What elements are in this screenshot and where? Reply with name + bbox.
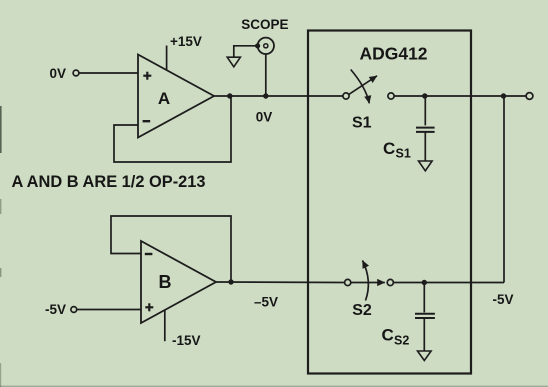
svg-text:C: C [383,139,395,158]
svg-text:S2: S2 [394,334,409,348]
svg-text:-5V: -5V [492,292,513,307]
svg-text:-5V: -5V [45,302,66,317]
svg-text:S1: S1 [396,147,411,161]
svg-text:S2: S2 [352,302,372,319]
svg-text:0V: 0V [256,110,273,125]
svg-text:S1: S1 [352,115,372,132]
svg-text:SCOPE: SCOPE [241,17,288,32]
svg-text:A AND B ARE 1/2 OP-213: A AND B ARE 1/2 OP-213 [12,173,206,191]
svg-text:+15V: +15V [170,34,202,49]
svg-text:B: B [159,272,172,292]
svg-text:-15V: -15V [172,333,201,348]
svg-text:C: C [382,326,394,345]
svg-text:0V: 0V [49,66,66,81]
svg-text:ADG412: ADG412 [359,44,427,64]
svg-text:A: A [158,89,170,108]
svg-text:–5V: –5V [254,295,278,310]
